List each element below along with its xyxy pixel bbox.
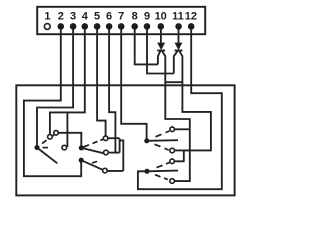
- switch S2 arm to Cdn: [81, 148, 103, 153]
- contact Re: [170, 179, 175, 184]
- diode VD1: [157, 43, 165, 51]
- connector X1 body: [37, 7, 205, 34]
- diode VD1 cathode fork right wire to contact Ra: [162, 51, 190, 181]
- wire descender to Cdn: [119, 138, 121, 152]
- svg-text:1: 1: [44, 11, 50, 23]
- wire pin7 to switch S4 common: [121, 29, 146, 139]
- svg-text:11: 11: [172, 11, 184, 23]
- pin 7 contact: [118, 23, 125, 30]
- pin 4 contact: [82, 23, 89, 30]
- svg-text:5: 5: [94, 11, 100, 23]
- svg-text:2: 2: [58, 11, 64, 23]
- contact alpha: [170, 148, 175, 153]
- pin 9 contact: [144, 23, 151, 30]
- wire pin5 to contact Cup: [97, 29, 106, 136]
- contact Cup: [103, 136, 108, 141]
- wire contact B to switch S2 common: [58, 133, 81, 146]
- diode VD2 cathode fork left: [174, 51, 178, 74]
- switch housing box: [16, 85, 234, 195]
- switch S5 arm: [147, 170, 178, 173]
- pin 10 contact: [158, 23, 165, 30]
- wire pin6 down: [109, 29, 115, 152]
- wire drop alpha line to beta: [174, 150, 184, 161]
- switch S2 dashes to Cup: [93, 141, 98, 143]
- wire pin12 to switch S5 common: [138, 29, 222, 189]
- svg-text:6: 6: [106, 11, 112, 23]
- switch S4 dashes to alpha: [155, 144, 161, 146]
- switch S2 common node: [79, 145, 84, 150]
- svg-text:3: 3: [70, 11, 76, 23]
- diode VD1 cathode fork left: [158, 51, 161, 65]
- svg-text:7: 7: [118, 11, 124, 23]
- switch S3 dash: [92, 161, 97, 163]
- wire pin8 to diode VD1 cathode left: [135, 29, 158, 64]
- pin 6 contact: [106, 23, 113, 30]
- pin 12 contact: [188, 23, 195, 30]
- contact Ra: [170, 127, 175, 132]
- switch S4 common node: [144, 138, 149, 143]
- wire stub to contact Ra: [175, 128, 190, 130]
- wire link VD1-VD2 cathodes: [165, 81, 182, 83]
- switch S1 common node: [34, 145, 39, 150]
- switch S5 dashes to Re: [155, 175, 161, 177]
- wire branch pin4 to contact c1: [66, 112, 68, 146]
- switch S5 common node: [144, 169, 149, 174]
- wire pin3 to switch S1 common: [37, 29, 73, 146]
- switch S1 dashes to A/B: [42, 140, 47, 143]
- pin 3 contact: [70, 23, 77, 30]
- wire contact Clow stub: [107, 170, 123, 172]
- pin 8 contact: [131, 23, 138, 30]
- wire pin10 to diode VD1 anode: [160, 29, 162, 43]
- svg-text:10: 10: [155, 11, 167, 23]
- switch S3 common node: [79, 158, 84, 163]
- pin 2 contact: [58, 23, 65, 30]
- contact Clow: [103, 168, 108, 173]
- switch S3 arm to Clow: [81, 160, 103, 170]
- switch S2 arm start to Cup: [81, 145, 89, 148]
- switch S1 dash to c1: [43, 147, 49, 149]
- contact B: [54, 131, 59, 136]
- wire pin9 to diode VD2 cathode left: [147, 29, 174, 73]
- wire contact Cdn stub: [108, 152, 120, 154]
- wire branch and descender to Clow: [120, 140, 124, 171]
- svg-text:8: 8: [132, 11, 138, 23]
- pin 1 contact (open): [44, 24, 50, 30]
- wire pin11 to diode VD2 anode: [178, 29, 180, 43]
- contact beta: [170, 159, 175, 164]
- switch S4 arm: [147, 139, 178, 142]
- diode VD2: [175, 43, 183, 51]
- pin 11 contact: [175, 23, 182, 30]
- svg-text:12: 12: [185, 11, 197, 23]
- switch S4 dashes to Ra: [156, 134, 162, 137]
- contact c1: [62, 145, 67, 150]
- wire pin2 to switch S3 common: [24, 29, 81, 176]
- wire pin4 to contact A: [50, 29, 85, 134]
- switch S5 dashes to beta: [157, 165, 163, 167]
- wire contact Cup stub: [108, 137, 120, 139]
- svg-text:4: 4: [82, 11, 89, 23]
- diode VD2 cathode fork right wire to contact alpha: [174, 51, 211, 151]
- svg-text:9: 9: [144, 11, 150, 23]
- contact A: [48, 135, 53, 140]
- switch S1 arm: [37, 148, 57, 164]
- contact Cdn: [104, 150, 109, 155]
- pin 5 contact: [94, 23, 101, 30]
